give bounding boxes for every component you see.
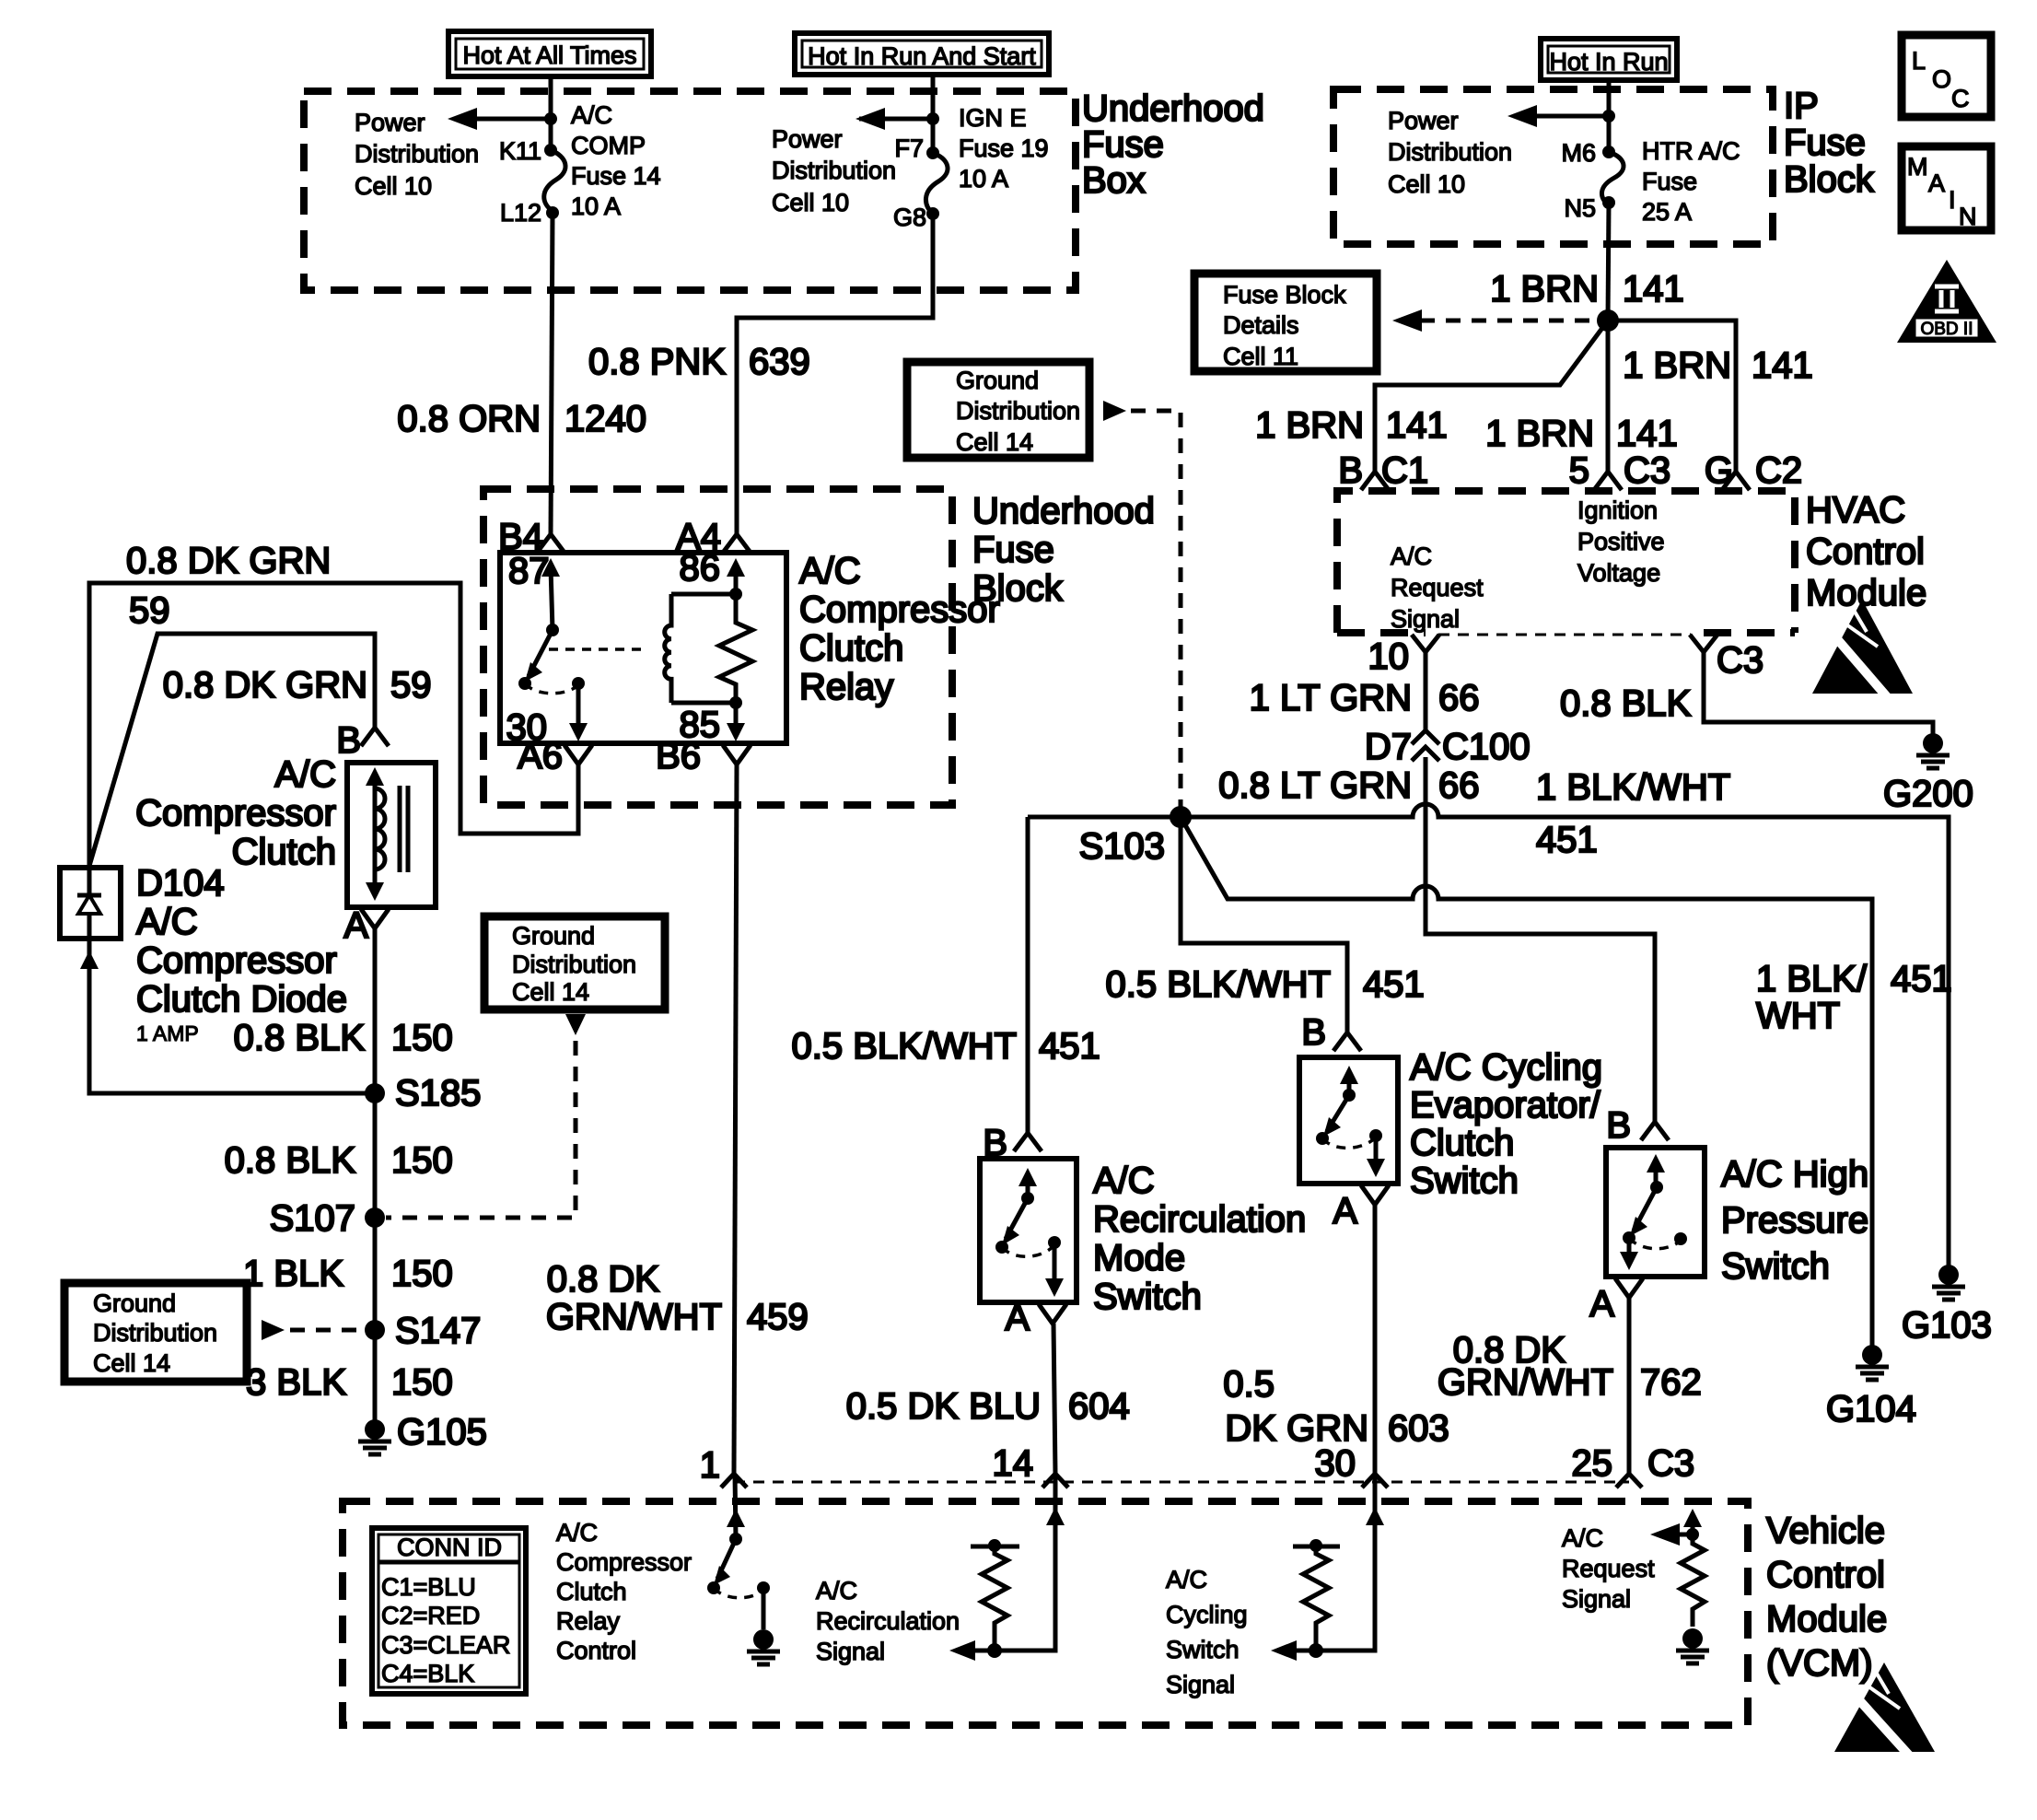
svg-text:0.8 DK GRN: 0.8 DK GRN	[126, 541, 331, 581]
svg-text:C3: C3	[1647, 1443, 1694, 1484]
svg-text:762: 762	[1640, 1362, 1702, 1403]
svg-text:Underhood: Underhood	[972, 491, 1155, 531]
svg-text:Signal: Signal	[816, 1638, 885, 1665]
svg-text:25: 25	[1572, 1443, 1613, 1484]
svg-text:Signal: Signal	[1391, 605, 1460, 633]
svg-text:L12: L12	[500, 199, 541, 227]
svg-text:0.5: 0.5	[1223, 1364, 1275, 1405]
svg-text:Box: Box	[1082, 160, 1146, 201]
svg-text:Clutch Diode: Clutch Diode	[136, 979, 347, 1020]
svg-text:B: B	[1338, 450, 1363, 491]
svg-text:B: B	[336, 720, 361, 761]
svg-text:G104: G104	[1826, 1389, 1916, 1429]
svg-text:Cycling: Cycling	[1166, 1601, 1248, 1628]
svg-text:G8: G8	[893, 204, 926, 231]
svg-text:59: 59	[129, 590, 170, 631]
svg-text:N5: N5	[1564, 194, 1596, 222]
svg-text:IP: IP	[1784, 86, 1819, 126]
svg-text:A/C: A/C	[1562, 1524, 1603, 1552]
svg-text:0.5 BLK/WHT: 0.5 BLK/WHT	[1105, 964, 1331, 1005]
svg-text:A: A	[1928, 169, 1945, 197]
svg-text:A/C: A/C	[274, 754, 336, 795]
svg-text:Distribution: Distribution	[512, 951, 636, 978]
svg-text:Hot In Run: Hot In Run	[1549, 48, 1668, 76]
svg-text:141: 141	[1616, 414, 1678, 454]
svg-text:COMP: COMP	[571, 132, 646, 159]
svg-text:B6: B6	[656, 736, 701, 776]
svg-text:451: 451	[1536, 820, 1598, 860]
svg-text:Cell 10: Cell 10	[355, 172, 432, 200]
svg-text:Control: Control	[1806, 531, 1925, 572]
svg-text:GRN/WHT: GRN/WHT	[546, 1297, 722, 1337]
svg-text:0.8 BLK: 0.8 BLK	[225, 1140, 356, 1181]
svg-text:30: 30	[1315, 1443, 1356, 1484]
svg-text:A/C: A/C	[136, 902, 198, 942]
svg-text:C3: C3	[1717, 640, 1763, 681]
svg-text:Control: Control	[556, 1637, 636, 1664]
svg-text:Power: Power	[772, 125, 843, 153]
svg-text:Cell 10: Cell 10	[772, 189, 849, 216]
svg-text:Block: Block	[1784, 159, 1875, 200]
svg-text:150: 150	[391, 1140, 453, 1181]
svg-text:451: 451	[1039, 1026, 1100, 1067]
svg-text:F7: F7	[894, 134, 924, 162]
svg-text:Module: Module	[1806, 573, 1926, 613]
svg-text:Mode: Mode	[1093, 1238, 1185, 1278]
svg-text:5: 5	[1569, 450, 1589, 491]
svg-text:1 BRN: 1 BRN	[1623, 345, 1731, 386]
svg-text:Fuse: Fuse	[1082, 124, 1164, 165]
svg-text:IGN E: IGN E	[959, 104, 1027, 132]
svg-text:59: 59	[390, 665, 432, 706]
svg-text:Fuse: Fuse	[972, 530, 1054, 570]
svg-text:B: B	[1606, 1105, 1631, 1146]
svg-text:10 A: 10 A	[959, 165, 1008, 192]
svg-text:1 LT GRN: 1 LT GRN	[1250, 678, 1412, 718]
svg-text:Fuse: Fuse	[1784, 122, 1866, 163]
svg-text:CONN ID: CONN ID	[397, 1534, 502, 1561]
svg-text:639: 639	[749, 342, 810, 382]
svg-text:150: 150	[391, 1254, 453, 1294]
svg-text:S103: S103	[1079, 826, 1165, 867]
svg-text:HTR A/C: HTR A/C	[1642, 137, 1740, 165]
svg-text:604: 604	[1068, 1386, 1130, 1427]
svg-text:K11: K11	[499, 137, 541, 165]
svg-text:(VCM): (VCM)	[1766, 1643, 1873, 1684]
svg-text:0.8 DK GRN: 0.8 DK GRN	[163, 665, 367, 706]
svg-text:C2=RED: C2=RED	[381, 1602, 480, 1629]
svg-text:O: O	[1932, 65, 1951, 93]
svg-text:Relay: Relay	[799, 667, 893, 707]
svg-text:Hot In Run And Start: Hot In Run And Start	[808, 42, 1036, 70]
svg-text:Distribution: Distribution	[355, 140, 479, 168]
svg-text:141: 141	[1623, 269, 1684, 309]
svg-text:WHT: WHT	[1756, 996, 1840, 1036]
svg-text:G200: G200	[1883, 774, 1973, 814]
svg-text:A/C: A/C	[1093, 1161, 1155, 1201]
svg-text:A: A	[1589, 1284, 1614, 1324]
svg-text:1: 1	[700, 1445, 720, 1486]
svg-text:141: 141	[1752, 345, 1813, 386]
svg-text:Switch: Switch	[1410, 1161, 1519, 1201]
svg-text:14: 14	[993, 1443, 1034, 1484]
svg-text:Vehicle: Vehicle	[1766, 1511, 1885, 1551]
svg-text:0.8 ORN: 0.8 ORN	[397, 399, 541, 439]
svg-text:Voltage: Voltage	[1577, 559, 1660, 587]
svg-text:Ground: Ground	[512, 922, 595, 950]
svg-text:G103: G103	[1902, 1305, 1992, 1346]
svg-text:150: 150	[391, 1018, 453, 1058]
svg-text:Request: Request	[1562, 1555, 1655, 1582]
svg-text:HVAC: HVAC	[1806, 490, 1905, 531]
svg-text:Switch: Switch	[1721, 1246, 1830, 1287]
svg-text:141: 141	[1386, 405, 1448, 446]
svg-text:A/C: A/C	[571, 101, 612, 129]
svg-text:1 AMP: 1 AMP	[136, 1021, 199, 1045]
svg-text:A/C Cycling: A/C Cycling	[1410, 1047, 1602, 1088]
svg-text:Pressure: Pressure	[1721, 1200, 1868, 1241]
svg-text:86: 86	[680, 548, 721, 589]
svg-text:3 BLK: 3 BLK	[246, 1362, 346, 1403]
svg-text:Positive: Positive	[1577, 528, 1665, 555]
svg-text:Compressor: Compressor	[556, 1548, 692, 1576]
svg-text:Cell 10: Cell 10	[1388, 170, 1465, 198]
svg-text:I: I	[1949, 186, 1956, 214]
svg-text:603: 603	[1388, 1408, 1449, 1449]
svg-text:A/C: A/C	[1166, 1566, 1207, 1593]
svg-text:Compressor: Compressor	[135, 793, 336, 834]
svg-text:Distribution: Distribution	[1388, 138, 1512, 166]
svg-text:Switch: Switch	[1093, 1277, 1202, 1317]
svg-text:Ground: Ground	[956, 367, 1039, 394]
svg-text:150: 150	[391, 1362, 453, 1403]
svg-text:C: C	[1951, 85, 1970, 112]
svg-text:Fuse Block: Fuse Block	[1223, 281, 1346, 309]
svg-text:GRN/WHT: GRN/WHT	[1438, 1362, 1613, 1403]
svg-text:Fuse 14: Fuse 14	[571, 162, 661, 190]
svg-text:M6: M6	[1561, 139, 1596, 167]
svg-text:Cell 11: Cell 11	[1223, 343, 1298, 370]
svg-text:Details: Details	[1223, 311, 1299, 339]
svg-text:Clutch: Clutch	[232, 832, 336, 872]
svg-text:Power: Power	[1388, 107, 1459, 134]
svg-text:D104: D104	[136, 863, 225, 904]
svg-text:25 A: 25 A	[1642, 198, 1692, 226]
svg-text:Cell 14: Cell 14	[956, 428, 1033, 456]
svg-text:0.5 DK BLU: 0.5 DK BLU	[846, 1386, 1041, 1427]
svg-text:Evaporator/: Evaporator/	[1410, 1085, 1601, 1126]
svg-text:C1: C1	[1381, 450, 1428, 491]
svg-text:S147: S147	[395, 1311, 481, 1351]
svg-text:Recirculation: Recirculation	[816, 1607, 960, 1635]
svg-text:0.8 PNK: 0.8 PNK	[588, 342, 726, 382]
svg-text:Recirculation: Recirculation	[1093, 1199, 1306, 1240]
svg-text:0.8 BLK: 0.8 BLK	[1560, 683, 1692, 724]
svg-text:C3: C3	[1624, 450, 1670, 491]
svg-text:0.8 BLK: 0.8 BLK	[234, 1018, 366, 1058]
svg-text:A/C: A/C	[816, 1577, 857, 1604]
svg-text:66: 66	[1438, 678, 1480, 718]
svg-text:A: A	[1005, 1298, 1030, 1338]
svg-text:0.8 DK: 0.8 DK	[547, 1259, 660, 1300]
svg-text:OBD II: OBD II	[1920, 320, 1973, 339]
svg-text:Cell 14: Cell 14	[512, 978, 589, 1006]
svg-text:A6: A6	[518, 736, 563, 776]
svg-text:Distribution: Distribution	[956, 397, 1080, 425]
svg-text:66: 66	[1438, 765, 1480, 806]
svg-text:A/C High: A/C High	[1721, 1154, 1868, 1195]
svg-text:459: 459	[747, 1297, 809, 1337]
svg-text:G105: G105	[397, 1412, 487, 1452]
svg-text:A/C: A/C	[556, 1519, 598, 1546]
svg-text:Power: Power	[355, 109, 425, 136]
svg-text:Fuse 19: Fuse 19	[959, 134, 1049, 162]
svg-text:M: M	[1907, 153, 1928, 181]
svg-text:A/C: A/C	[1391, 542, 1432, 570]
svg-text:Signal: Signal	[1562, 1585, 1631, 1613]
svg-text:1240: 1240	[565, 399, 646, 439]
svg-text:Control: Control	[1766, 1555, 1885, 1595]
svg-text:Hot At All Times: Hot At All Times	[462, 41, 636, 69]
svg-text:1 BLK/WHT: 1 BLK/WHT	[1536, 767, 1730, 808]
svg-text:A: A	[1333, 1191, 1357, 1231]
svg-text:Ignition: Ignition	[1577, 496, 1658, 524]
svg-text:C100: C100	[1442, 727, 1531, 767]
svg-text:Distribution: Distribution	[93, 1319, 217, 1347]
svg-text:451: 451	[1891, 959, 1952, 999]
svg-text:Compressor: Compressor	[799, 589, 1000, 630]
svg-text:451: 451	[1363, 964, 1425, 1005]
svg-text:10: 10	[1368, 636, 1410, 677]
svg-text:Compressor: Compressor	[136, 940, 337, 981]
svg-text:Ground: Ground	[93, 1289, 176, 1317]
svg-text:C1=BLU: C1=BLU	[381, 1573, 476, 1601]
svg-text:S107: S107	[270, 1198, 355, 1239]
svg-text:Clutch: Clutch	[799, 628, 903, 669]
svg-text:Fuse: Fuse	[1642, 168, 1697, 195]
svg-text:Cell 14: Cell 14	[93, 1349, 170, 1377]
svg-text:L: L	[1912, 47, 1926, 75]
svg-text:1 BLK/: 1 BLK/	[1756, 959, 1868, 999]
svg-text:Clutch: Clutch	[1410, 1123, 1514, 1163]
svg-text:S185: S185	[395, 1073, 481, 1114]
svg-text:Switch: Switch	[1166, 1636, 1240, 1663]
svg-text:Module: Module	[1766, 1599, 1887, 1639]
svg-text:Underhood: Underhood	[1082, 88, 1264, 129]
svg-text:10 A: 10 A	[571, 192, 621, 220]
svg-text:Request: Request	[1391, 574, 1484, 601]
svg-text:B: B	[1301, 1012, 1326, 1053]
svg-text:1 BLK: 1 BLK	[243, 1254, 343, 1294]
svg-text:1 BRN: 1 BRN	[1485, 414, 1594, 454]
svg-text:1 BRN: 1 BRN	[1255, 405, 1364, 446]
svg-text:C2: C2	[1755, 450, 1802, 491]
svg-text:Relay: Relay	[556, 1607, 621, 1635]
svg-text:Clutch: Clutch	[556, 1578, 627, 1605]
svg-text:Signal: Signal	[1166, 1671, 1235, 1698]
svg-text:D7: D7	[1365, 727, 1412, 767]
svg-text:Distribution: Distribution	[772, 157, 896, 184]
svg-text:A/C: A/C	[799, 551, 861, 591]
svg-text:N: N	[1959, 203, 1977, 230]
svg-text:1 BRN: 1 BRN	[1490, 269, 1599, 309]
svg-text:0.5 BLK/WHT: 0.5 BLK/WHT	[791, 1026, 1017, 1067]
svg-text:C3=CLEAR: C3=CLEAR	[381, 1631, 510, 1659]
svg-text:87: 87	[508, 551, 550, 591]
svg-text:C4=BLK: C4=BLK	[381, 1660, 474, 1687]
svg-text:0.8 LT GRN: 0.8 LT GRN	[1218, 765, 1412, 806]
svg-text:G: G	[1705, 450, 1733, 491]
